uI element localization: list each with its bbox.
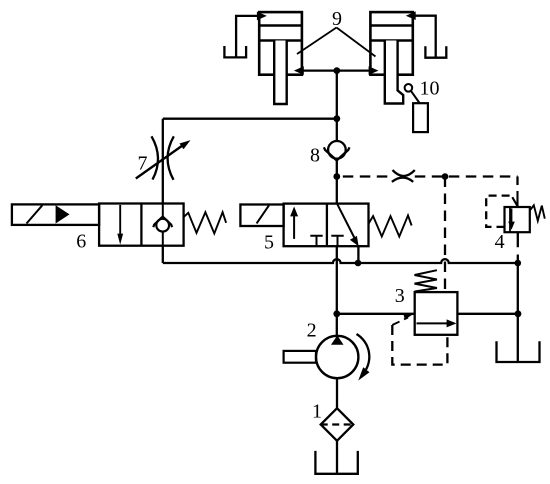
pilot dashed line y=176.5 right of orifice xyxy=(415,175,518,177)
filter 1 diamond xyxy=(321,408,354,441)
orifice on pilot line xyxy=(392,170,415,182)
wire: cylinder 9a top drain xyxy=(236,16,259,58)
pilot dashed line y=176.5 left of orifice xyxy=(343,175,393,177)
valve 3 pilot loop dashed xyxy=(392,325,447,365)
wire: main vertical valve5 to pump with bump crossing xyxy=(336,246,338,336)
wire: left loop top horizontal xyxy=(163,118,337,120)
solenoid valve 5 actuator box xyxy=(240,205,283,227)
valve 3 internal arrow xyxy=(417,322,449,324)
solenoid valve 5 actuator diagonal xyxy=(257,205,269,223)
pilot dashed drop to valve 4 xyxy=(516,177,518,190)
valve 4 pilot loop dashed xyxy=(486,196,510,227)
wire: pump line to valve 3 xyxy=(337,313,415,315)
valve 6 port stubs xyxy=(162,204,164,246)
solenoid valve 6 body xyxy=(99,204,184,246)
valve 4 drain line xyxy=(517,232,519,362)
wire: valve 6 outlet down xyxy=(162,246,164,263)
valve 3 spring xyxy=(415,270,437,291)
svg-text:7: 7 xyxy=(138,152,148,174)
node: junction cylinders xyxy=(333,67,340,74)
tank T2 (left top) xyxy=(224,46,246,57)
node: valve 5 A port junction xyxy=(355,260,362,267)
limit switch 10 lever xyxy=(411,91,420,103)
valve 6 check seat xyxy=(153,217,172,228)
svg-text:5: 5 xyxy=(264,232,274,254)
throttle 7 arcs xyxy=(152,136,174,180)
wire: left loop vertical xyxy=(162,119,164,204)
node: pump outlet junction xyxy=(333,310,340,317)
solenoid valve 5 body xyxy=(284,204,369,247)
throttle 7 arrow xyxy=(136,143,186,179)
solenoid valve 6 actuator pilot triangle xyxy=(56,205,70,223)
solenoid valve 6 actuator diagonal xyxy=(27,205,43,223)
tank T1 (bottom) xyxy=(315,451,357,474)
svg-text:10: 10 xyxy=(420,78,440,100)
valve 6 left square down arrow xyxy=(119,205,121,238)
valve 6 spring xyxy=(184,212,227,233)
solenoid valve 6 actuator box xyxy=(12,204,99,225)
svg-text:3: 3 xyxy=(395,285,405,307)
valve 4 body xyxy=(505,207,530,232)
node: junction left loop top xyxy=(333,115,340,122)
valve 4 down arrow xyxy=(511,209,513,226)
cylinder 9b body xyxy=(370,12,412,75)
tank T3 (right top) xyxy=(425,46,446,57)
wire: pump to filter xyxy=(336,378,338,408)
arrow into 9b bottom port xyxy=(369,66,379,75)
pump 2 circle xyxy=(316,336,358,378)
wire: cylinder supply line y=70.6 xyxy=(302,69,371,71)
wire: node C to valve 5 top xyxy=(336,177,338,204)
limit switch 10 body xyxy=(413,103,428,132)
cylinder 9b rod with cam xyxy=(385,41,403,104)
limit switch 10 roller xyxy=(405,84,413,92)
svg-text:6: 6 xyxy=(76,230,86,252)
wire: cylinder 9b top drain xyxy=(413,16,436,58)
wire: valve 3 outlet line xyxy=(457,313,518,315)
svg-text:1: 1 xyxy=(312,400,322,422)
pump 2 outlet triangle xyxy=(331,335,344,344)
pump 2 rotation arrow xyxy=(357,334,370,375)
label 9 pointer lines xyxy=(297,28,376,57)
svg-text:4: 4 xyxy=(495,231,505,253)
node: junction pilot line xyxy=(333,173,340,180)
cylinder 9a rod xyxy=(274,41,287,105)
wire: valve 5 A port down xyxy=(357,246,359,263)
check valve 8 xyxy=(328,141,346,159)
wire: A-line y=263 with crossover bumps xyxy=(163,259,518,263)
arrow into 9a bottom port xyxy=(294,66,304,75)
valve 4 spring xyxy=(530,205,545,220)
cylinder 9a body xyxy=(259,12,302,75)
node: pilot junction xyxy=(442,173,449,180)
arrow into 9a top port xyxy=(257,12,267,21)
svg-text:8: 8 xyxy=(310,144,320,166)
tank T4 (bottom right) xyxy=(497,341,540,362)
valve 5 left square up arrow xyxy=(293,212,295,239)
wire: filter to tank xyxy=(336,441,338,474)
valve 4 inner line xyxy=(509,207,511,232)
filter 1 dashed element xyxy=(321,423,354,425)
svg-text:2: 2 xyxy=(307,320,317,342)
svg-text:9: 9 xyxy=(332,8,342,30)
valve 5 diagonal flow path xyxy=(337,204,355,238)
valve 5 blocked port T1 xyxy=(310,236,322,247)
valve 3 pilot tap dashed diagonal with arrow xyxy=(392,318,408,326)
arrow into 9b top port xyxy=(406,11,416,20)
valve 5 spring xyxy=(369,215,412,236)
wire: check valve to node C xyxy=(336,160,338,176)
valve 5 blocked port T2 xyxy=(331,236,343,247)
wire: main vertical to check valve xyxy=(336,119,338,141)
node: valve 4 drain junction xyxy=(515,260,522,267)
pump 2 shaft xyxy=(284,351,316,363)
pilot dashed drop to valve 3 xyxy=(444,177,446,293)
valve 6 check circle xyxy=(156,219,169,232)
node: tank line junction xyxy=(515,310,522,317)
valve 3 body xyxy=(415,292,458,335)
wire: main vertical 70.6-118.7 xyxy=(336,71,338,119)
